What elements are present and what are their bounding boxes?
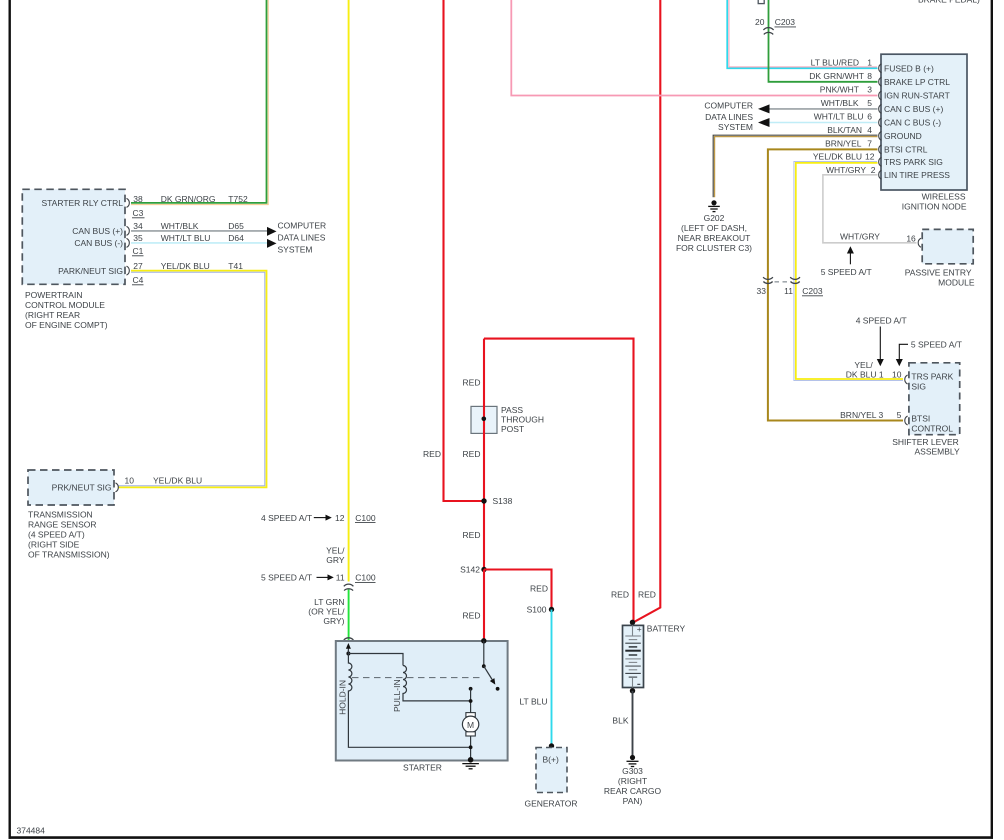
svg-text:T752: T752 xyxy=(228,194,248,204)
svg-text:RED: RED xyxy=(611,590,629,600)
page frame right border xyxy=(991,0,993,839)
label pin 10 YEL/DK BLU xyxy=(125,475,203,485)
component BATTERY xyxy=(623,624,686,688)
wire DK GRN/WHT trunk xyxy=(769,0,878,82)
svg-text:FUSED B (+): FUSED B (+) xyxy=(884,63,934,73)
svg-text:7: 7 xyxy=(867,138,872,148)
wire YEL/DK BLU pin27 to TRS xyxy=(118,271,267,488)
svg-text:POWERTRAIN: POWERTRAIN xyxy=(25,290,82,300)
wire BLK/TAN ground black part xyxy=(713,135,877,197)
svg-text:RED: RED xyxy=(463,530,481,540)
svg-text:BTSI: BTSI xyxy=(911,413,930,423)
svg-text:4 SPEED A/T: 4 SPEED A/T xyxy=(856,315,907,325)
svg-text:IGNITION NODE: IGNITION NODE xyxy=(902,202,967,212)
battery top terminal xyxy=(630,620,635,625)
wire LT BLU S100 to generator xyxy=(551,610,553,747)
svg-text:PARK/NEUT SIG: PARK/NEUT SIG xyxy=(58,266,123,276)
label 4 SPEED A/T arrow 12 C100 xyxy=(261,513,376,523)
svg-text:S100: S100 xyxy=(527,605,547,615)
connector C203 at top xyxy=(755,17,796,35)
svg-text:CAN BUS (-): CAN BUS (-) xyxy=(74,238,123,248)
svg-text:DK BLU 1: DK BLU 1 xyxy=(846,369,884,379)
svg-text:BRAKE PEDAL): BRAKE PEDAL) xyxy=(918,0,980,5)
svg-text:PULL-IN: PULL-IN xyxy=(392,679,402,712)
wire WHT/LT BLU CAN C - xyxy=(770,122,878,124)
label 5 SPEED A/T arrow 11 C100 xyxy=(261,572,376,582)
svg-text:11: 11 xyxy=(336,572,345,582)
svg-text:GROUND: GROUND xyxy=(884,131,922,141)
svg-text:8: 8 xyxy=(867,71,872,81)
labels YEL/DK BLU 1 10 xyxy=(846,360,902,380)
svg-text:C100: C100 xyxy=(355,572,376,582)
wire LT BLU/RED trunk xyxy=(727,0,877,68)
svg-text:RED: RED xyxy=(638,590,656,600)
label computer data lines system (right) xyxy=(704,101,753,132)
wire RED pass-through vertical xyxy=(483,339,485,570)
svg-text:COMPUTER: COMPUTER xyxy=(704,101,753,111)
svg-text:FOR CLUSTER C3): FOR CLUSTER C3) xyxy=(676,243,752,253)
svg-text:(OR YEL/: (OR YEL/ xyxy=(308,606,345,616)
module PEM (passive entry module) dashed box xyxy=(905,229,975,287)
svg-text:3: 3 xyxy=(867,84,872,94)
svg-text:GRY): GRY) xyxy=(323,616,344,626)
wire LT GRN to starter xyxy=(348,590,350,641)
svg-text:RED: RED xyxy=(530,584,548,594)
svg-text:D64: D64 xyxy=(228,233,244,243)
svg-text:16: 16 xyxy=(906,233,916,243)
WIN caption xyxy=(902,192,967,212)
svg-text:SYSTEM: SYSTEM xyxy=(278,244,313,254)
ground G202 xyxy=(676,200,752,253)
label YEL/GRY xyxy=(326,546,345,565)
PCM pin 38 arc xyxy=(127,198,130,207)
svg-text:G202: G202 xyxy=(704,213,725,223)
wire DK GRN/ORG pin38 to top xyxy=(131,0,267,203)
shifter pin 5 arc xyxy=(905,416,908,425)
arrow computer data lines lower (win) xyxy=(758,118,770,127)
wire YEL trunk from top to C100 xyxy=(348,0,350,582)
wire WHT/LT BLU pin35 xyxy=(131,242,267,244)
TRS caption xyxy=(28,509,110,559)
svg-text:WHT/BLK: WHT/BLK xyxy=(161,221,199,231)
starter pull-in junction dot xyxy=(469,699,473,703)
svg-text:CONTROL: CONTROL xyxy=(911,423,953,433)
svg-text:DK GRN/WHT: DK GRN/WHT xyxy=(809,71,864,81)
shifter caption xyxy=(892,437,960,457)
wire BLK/TAN ground tan part xyxy=(715,137,878,198)
module GENERATOR dashed box xyxy=(524,748,577,809)
terminal square at top xyxy=(758,0,764,4)
svg-text:LT BLU/RED: LT BLU/RED xyxy=(811,57,859,67)
svg-text:WIRELESS: WIRELESS xyxy=(922,192,966,202)
wire BLK battery to G303 xyxy=(632,691,634,756)
pass through post box xyxy=(471,405,544,434)
generator terminal dot xyxy=(549,743,554,748)
module WIN (wireless ignition node) xyxy=(881,54,967,190)
battery bottom terminal xyxy=(630,688,635,693)
wire RED S142 to starter xyxy=(483,570,485,640)
svg-text:27: 27 xyxy=(133,261,143,271)
svg-text:YEL/: YEL/ xyxy=(854,360,873,370)
starter linkage dashed xyxy=(352,677,480,679)
svg-text:(LEFT OF DASH,: (LEFT OF DASH, xyxy=(681,223,747,233)
svg-text:38: 38 xyxy=(133,194,143,204)
svg-text:(4 SPEED A/T): (4 SPEED A/T) xyxy=(28,529,85,539)
svg-text:S142: S142 xyxy=(460,565,480,575)
svg-text:BRAKE LP CTRL: BRAKE LP CTRL xyxy=(884,77,950,87)
wire WHT/BLK CAN C + xyxy=(770,108,878,110)
svg-text:S138: S138 xyxy=(493,496,513,506)
svg-text:6: 6 xyxy=(867,111,872,121)
motor M xyxy=(462,713,478,736)
svg-text:C1: C1 xyxy=(133,246,144,256)
svg-text:RED: RED xyxy=(463,449,481,459)
svg-text:BTSI CTRL: BTSI CTRL xyxy=(884,144,928,154)
svg-text:(RIGHT: (RIGHT xyxy=(618,776,647,786)
svg-text:DK GRN/ORG: DK GRN/ORG xyxy=(161,194,216,204)
svg-text:TRS PARK: TRS PARK xyxy=(911,371,953,381)
svg-text:OF ENGINE COMPT): OF ENGINE COMPT) xyxy=(25,320,108,330)
module SHIFTER LEVER ASSEMBLY dashed box xyxy=(909,363,960,435)
page frame left border xyxy=(8,0,10,839)
svg-text:PASS: PASS xyxy=(501,405,523,415)
page frame bottom border xyxy=(9,836,994,839)
svg-text:34: 34 xyxy=(133,221,143,231)
svg-text:WHT/BLK: WHT/BLK xyxy=(821,98,859,108)
WIN pin arcs xyxy=(879,64,882,180)
label computer data lines system (left) xyxy=(278,220,327,254)
svg-text:M: M xyxy=(467,720,474,730)
svg-text:RED: RED xyxy=(423,449,441,459)
svg-text:2: 2 xyxy=(871,165,876,175)
wire PNK/WHT trunk xyxy=(511,0,877,96)
WIN pin labels xyxy=(809,57,876,175)
starter hold-in junction xyxy=(346,652,350,656)
svg-text:WHT/LT BLU: WHT/LT BLU xyxy=(161,233,211,243)
svg-text:5 SPEED A/T: 5 SPEED A/T xyxy=(911,339,962,349)
svg-text:BATTERY: BATTERY xyxy=(647,624,686,634)
labels RED RED at battery xyxy=(611,590,656,600)
svg-text:YEL/DK BLU: YEL/DK BLU xyxy=(161,261,210,271)
PCM pin 27 arc xyxy=(127,266,130,275)
svg-text:YEL/DK BLU: YEL/DK BLU xyxy=(813,152,862,162)
svg-text:C203: C203 xyxy=(802,286,823,296)
svg-text:MODULE: MODULE xyxy=(938,277,975,287)
label 5 SPEED A/T with elbow arrow (shifter) xyxy=(896,339,962,366)
svg-text:POST: POST xyxy=(501,424,524,434)
pass through post dot xyxy=(482,417,487,422)
svg-text:DATA LINES: DATA LINES xyxy=(278,232,326,242)
splice S100 xyxy=(549,607,554,612)
label 4 SPEED A/T with down arrow (shifter) xyxy=(856,315,907,366)
TRS pin 10 arc xyxy=(116,483,119,492)
svg-text:T41: T41 xyxy=(228,261,243,271)
wire WHT/GRY to PEM xyxy=(823,175,917,243)
connector arc at starter entry xyxy=(344,638,354,640)
label pin 38 DK GRN/ORG T752 xyxy=(133,194,248,204)
svg-text:12: 12 xyxy=(865,152,875,162)
PCM pin 34 arc xyxy=(127,226,130,235)
wire WHT/BLK pin34 xyxy=(131,230,267,232)
svg-text:CONTROL MODULE: CONTROL MODULE xyxy=(25,300,105,310)
svg-text:PAN): PAN) xyxy=(623,796,643,806)
svg-text:HOLD-IN: HOLD-IN xyxy=(338,680,348,715)
PCM caption xyxy=(25,290,108,330)
svg-text:374484: 374484 xyxy=(17,826,46,836)
svg-text:REAR CARGO: REAR CARGO xyxy=(604,786,662,796)
ground G303 xyxy=(604,755,662,806)
svg-text:35: 35 xyxy=(133,233,143,243)
svg-text:WHT/GRY: WHT/GRY xyxy=(840,231,880,241)
svg-text:(RIGHT REAR: (RIGHT REAR xyxy=(25,310,80,320)
svg-text:10: 10 xyxy=(125,475,135,485)
svg-text:RED: RED xyxy=(463,611,481,621)
splice S138 xyxy=(481,498,486,503)
svg-text:BRN/YEL: BRN/YEL xyxy=(825,138,862,148)
starter switch xyxy=(481,638,499,691)
svg-text:33: 33 xyxy=(757,286,767,296)
svg-text:BLK/TAN: BLK/TAN xyxy=(827,125,862,135)
label pin 27 YEL/DK BLU T41 xyxy=(133,261,243,271)
wire YEL/DK BLU tracer (win) xyxy=(794,161,903,380)
svg-text:RANGE SENSOR: RANGE SENSOR xyxy=(28,519,97,529)
label pin 35 WHT/LT BLU D64 xyxy=(133,233,244,243)
svg-text:5 SPEED A/T: 5 SPEED A/T xyxy=(821,267,872,277)
svg-text:TRANSMISSION: TRANSMISSION xyxy=(28,509,93,519)
svg-text:CAN C BUS (+): CAN C BUS (+) xyxy=(884,104,943,114)
arrow 5 SPEED A/T up (pem) xyxy=(821,246,872,276)
wire BRN/YEL to shifter xyxy=(768,149,903,420)
svg-text:PNK/WHT: PNK/WHT xyxy=(820,84,859,94)
shifter pin 10 arc xyxy=(905,375,908,384)
svg-text:WHT/GRY: WHT/GRY xyxy=(826,165,866,175)
svg-text:STARTER RLY CTRL: STARTER RLY CTRL xyxy=(41,198,123,208)
svg-text:ASSEMBLY: ASSEMBLY xyxy=(914,447,960,457)
PCM pin 35 arc xyxy=(127,238,130,247)
svg-text:IGN RUN-START: IGN RUN-START xyxy=(884,90,950,100)
wire RED right trunk to battery xyxy=(633,0,661,622)
svg-text:THROUGH: THROUGH xyxy=(501,414,544,424)
svg-text:STARTER: STARTER xyxy=(403,762,442,772)
svg-text:B(+): B(+) xyxy=(543,755,559,765)
svg-text:+: + xyxy=(637,624,642,634)
svg-text:COMPUTER: COMPUTER xyxy=(278,220,327,230)
svg-text:LT BLU: LT BLU xyxy=(519,697,547,707)
svg-text:NEAR BREAKOUT: NEAR BREAKOUT xyxy=(678,233,751,243)
svg-text:LIN TIRE PRESS: LIN TIRE PRESS xyxy=(884,170,950,180)
svg-text:1: 1 xyxy=(867,57,872,67)
svg-text:20: 20 xyxy=(755,17,765,27)
svg-text:LT GRN: LT GRN xyxy=(314,597,344,607)
svg-text:CAN C BUS (-): CAN C BUS (-) xyxy=(884,118,941,128)
svg-text:G303: G303 xyxy=(622,766,643,776)
PCM connector labels C3 C1 C4 xyxy=(132,208,145,285)
svg-text:5: 5 xyxy=(867,98,872,108)
splice S142 xyxy=(481,567,486,572)
svg-text:C3: C3 xyxy=(133,208,144,218)
svg-text:C203: C203 xyxy=(775,17,796,27)
svg-text:4 SPEED A/T: 4 SPEED A/T xyxy=(261,513,312,523)
svg-text:BLK: BLK xyxy=(612,715,628,725)
sensor TRS (PRK/NEUT SIG) dashed box xyxy=(28,470,114,505)
starter bottom junction dot xyxy=(469,745,473,749)
svg-text:TRS PARK SIG: TRS PARK SIG xyxy=(884,157,943,167)
coil PULL-IN xyxy=(403,666,471,701)
svg-text:11: 11 xyxy=(784,286,793,296)
svg-text:12: 12 xyxy=(335,513,345,523)
svg-text:GENERATOR: GENERATOR xyxy=(524,799,577,809)
svg-text:SYSTEM: SYSTEM xyxy=(718,122,753,132)
arrow computer data lines upper (win) xyxy=(758,104,770,113)
wire YEL/DK BLU to shifter xyxy=(796,163,903,379)
svg-text:D65: D65 xyxy=(228,221,244,231)
svg-text:BRN/YEL 3: BRN/YEL 3 xyxy=(840,410,883,420)
arrow computer data lines (pcm lower) xyxy=(267,239,277,248)
connector C203 pair (33 / 11) xyxy=(757,277,823,296)
svg-text:5 SPEED A/T: 5 SPEED A/T xyxy=(261,572,312,582)
svg-text:C4: C4 xyxy=(133,275,144,285)
wire RED trunk left to S138 xyxy=(444,0,485,501)
svg-text:GRY: GRY xyxy=(326,555,345,565)
svg-text:5: 5 xyxy=(897,410,902,420)
svg-text:4: 4 xyxy=(867,125,872,135)
wire DK GRN/ORG orange tracer xyxy=(131,0,268,205)
wire LT BLU/RED tracer xyxy=(729,0,877,67)
starter entry arrow xyxy=(346,643,351,654)
arrow computer data lines (pcm upper) xyxy=(267,227,277,236)
PEM pin 16 arc xyxy=(918,238,921,247)
module PCM (powertrain control module) dashed box xyxy=(22,189,125,284)
coil HOLD-IN xyxy=(348,650,470,748)
wire RED battery feed horizontal xyxy=(484,339,634,622)
ground at starter xyxy=(462,757,479,769)
starter internal wire to pull-in xyxy=(348,654,403,666)
svg-text:SHIFTER LEVER: SHIFTER LEVER xyxy=(892,437,959,447)
labels BRN/YEL 3 5 xyxy=(840,410,901,420)
wire YEL/DK BLU tracer pin27 xyxy=(118,272,265,485)
starter motor branch top dot xyxy=(469,687,473,691)
wire RED S142 to S100 xyxy=(484,570,552,610)
svg-text:PASSIVE ENTRY: PASSIVE ENTRY xyxy=(905,267,972,277)
svg-text:RED: RED xyxy=(463,378,481,388)
svg-text:DATA LINES: DATA LINES xyxy=(705,112,753,122)
motor bottom wire xyxy=(470,736,472,760)
svg-text:(RIGHT SIDE: (RIGHT SIDE xyxy=(28,539,80,549)
svg-text:C100: C100 xyxy=(355,513,376,523)
starter motor vertical wire xyxy=(470,689,472,713)
connector C100 arcs xyxy=(344,584,354,590)
svg-text:PRK/NEUT SIG: PRK/NEUT SIG xyxy=(52,483,112,493)
svg-text:YEL/DK BLU: YEL/DK BLU xyxy=(153,475,202,485)
label LT GRN (OR YEL/GRY) xyxy=(308,597,345,626)
svg-text:WHT/LT BLU: WHT/LT BLU xyxy=(814,111,864,121)
svg-text:CAN BUS (+): CAN BUS (+) xyxy=(72,226,123,236)
svg-text:SIG: SIG xyxy=(911,381,926,391)
svg-text:OF TRANSMISSION): OF TRANSMISSION) xyxy=(28,549,110,559)
module STARTER box xyxy=(336,641,508,772)
svg-text:10: 10 xyxy=(892,369,902,379)
label pin 34 WHT/BLK D65 xyxy=(133,221,244,231)
